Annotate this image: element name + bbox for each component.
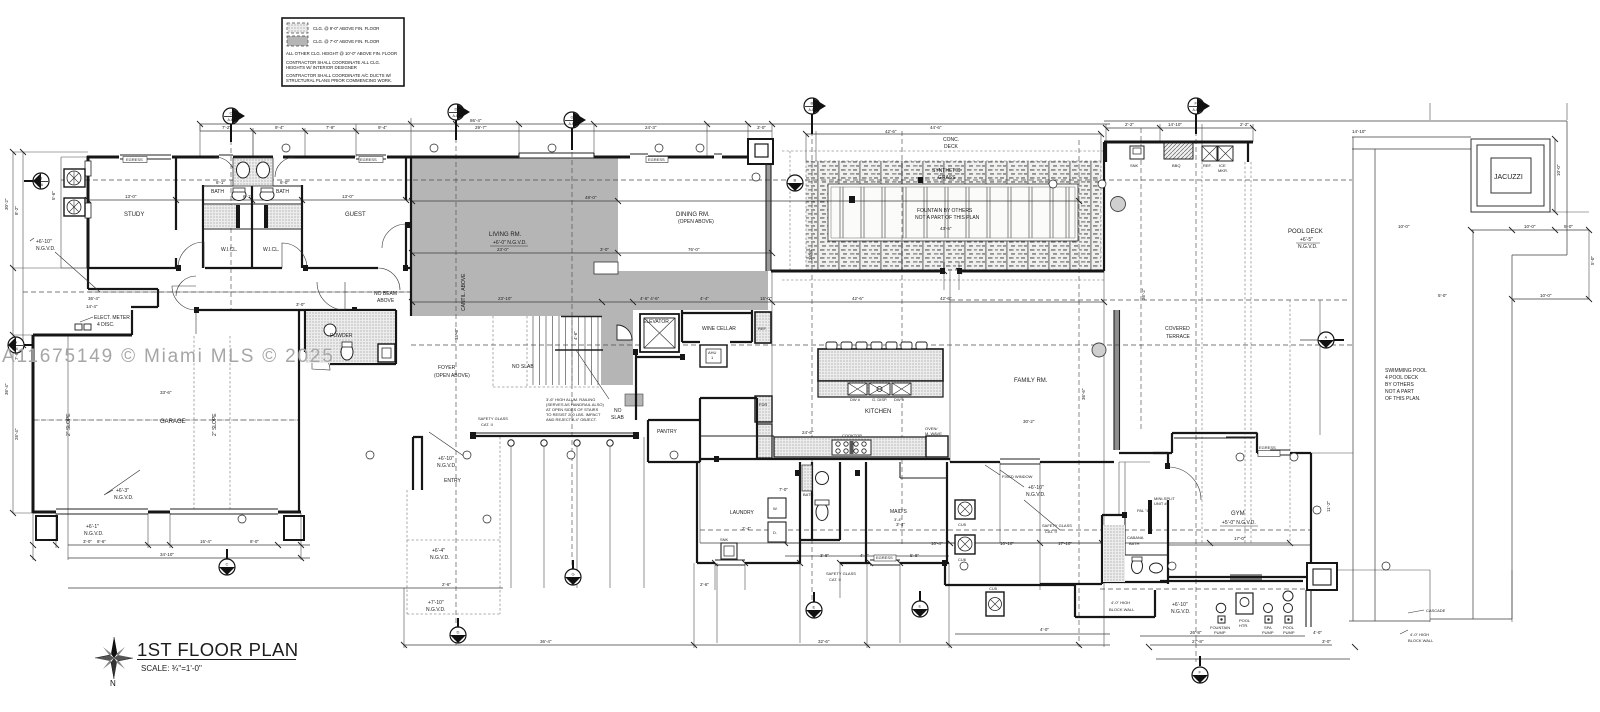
svg-text:HTR.: HTR. — [1239, 623, 1248, 628]
svg-text:+6'-4": +6'-4" — [432, 548, 445, 554]
svg-text:GUEST: GUEST — [345, 212, 366, 218]
svg-text:2'-6": 2'-6" — [442, 582, 451, 587]
laundry bath wall — [800, 462, 840, 563]
svg-text:SAFETY GLASS: SAFETY GLASS — [478, 416, 508, 421]
svg-text:2'-2": 2'-2" — [1240, 122, 1249, 127]
svg-text:BATH: BATH — [276, 189, 289, 195]
long vertical centerlines (dashed) — [231, 107, 1305, 662]
gym walls: north with raised section — [1119, 433, 1311, 453]
svg-text:BATH: BATH — [803, 492, 813, 497]
svg-text:36'-6": 36'-6" — [1081, 388, 1086, 400]
svg-text:29'-7": 29'-7" — [475, 125, 487, 130]
svg-text:9'-4": 9'-4" — [275, 125, 284, 130]
svg-text:36'-2": 36'-2" — [1141, 288, 1146, 300]
cabana bath hatch + fixtures — [1103, 525, 1125, 582]
svg-text:4'-0": 4'-0" — [1313, 630, 1322, 635]
stair landing rails — [555, 317, 603, 351]
CU5 condenser — [64, 169, 85, 187]
svg-text:MKR.: MKR. — [1218, 168, 1228, 173]
top dimension row 1 — [200, 123, 1110, 125]
svg-text:PUMP: PUMP — [1283, 630, 1295, 635]
svg-text:A-6: A-6 — [1323, 342, 1329, 346]
powder door arc — [312, 352, 330, 370]
svg-text:EGRESS: EGRESS — [126, 157, 143, 162]
svg-text:24'-6": 24'-6" — [802, 430, 814, 435]
svg-text:+6'-3": +6'-3" — [116, 488, 129, 494]
marker A left-bottom — [8, 337, 24, 353]
svg-text:D: D — [457, 630, 460, 635]
svg-text:5'-0": 5'-0" — [1590, 256, 1595, 265]
svg-text:W.I.CL.: W.I.CL. — [221, 247, 237, 253]
legend swatch 1: 9'-0 clg — [287, 23, 308, 33]
svg-text:27'-8": 27'-8" — [1192, 639, 1204, 644]
marker G top — [564, 112, 586, 128]
svg-text:AND REJECT A 4" OBJECT.: AND REJECT A 4" OBJECT. — [546, 417, 597, 422]
svg-text:CANTIL. ABOVE: CANTIL. ABOVE — [461, 273, 467, 311]
svg-text:EGRESS: EGRESS — [1259, 445, 1276, 450]
svg-text:NO SLAB: NO SLAB — [512, 364, 534, 370]
gray band under dining (cantilever above) — [618, 271, 768, 310]
svg-text:OF THIS PLAN.: OF THIS PLAN. — [1385, 396, 1420, 402]
svg-text:2" SLOPE: 2" SLOPE — [66, 413, 72, 436]
kitchen island hatched — [818, 349, 943, 381]
svg-text:G. DISP.: G. DISP. — [872, 397, 887, 402]
svg-text:2'-4": 2'-4" — [742, 526, 751, 531]
bath east wall — [301, 185, 303, 268]
svg-text:5'-0": 5'-0" — [1438, 293, 1447, 298]
svg-text:N.G.V.D.: N.G.V.D. — [426, 607, 446, 613]
powder sink — [324, 324, 336, 336]
gym interior north closet lines — [1174, 437, 1255, 439]
gym west wall — [1153, 453, 1168, 515]
bedroom wing: south wall of rooms — [87, 267, 411, 269]
powder room hatch — [306, 311, 395, 363]
REF box at wine cellar — [755, 312, 771, 343]
svg-text:15'-0": 15'-0" — [760, 296, 772, 301]
svg-text:JACUZZI: JACUZZI — [1494, 174, 1523, 181]
left upper small dim labels column x61 — [61, 157, 88, 268]
wine cellar walls — [682, 310, 752, 342]
jacuzzi — [1471, 139, 1550, 212]
cooktop — [832, 440, 871, 455]
svg-text:CAT. II: CAT. II — [1045, 529, 1057, 534]
svg-text:3'-0": 3'-0" — [1322, 639, 1331, 644]
svg-text:N.G.V.D.: N.G.V.D. — [437, 463, 457, 469]
mid-bottom dim row — [68, 543, 1290, 588]
svg-text:CLG. @ 9'-0" ABOVE FIN. FLOOR: CLG. @ 9'-0" ABOVE FIN. FLOOR — [313, 26, 379, 31]
svg-text:30'-2": 30'-2" — [4, 198, 9, 210]
living room gray slab (7'-0" clg) — [412, 158, 618, 316]
fountain inner rectangle — [828, 184, 1078, 241]
svg-text:D.: D. — [773, 530, 777, 535]
svg-text:A-6: A-6 — [792, 185, 798, 189]
dining north windows second line — [630, 153, 722, 155]
svg-text:7'-2": 7'-2" — [222, 125, 231, 130]
svg-text:STUDY: STUDY — [124, 212, 144, 218]
svg-text:WINE CELLAR: WINE CELLAR — [702, 326, 736, 332]
svg-text:N.G.V.D.: N.G.V.D. — [430, 555, 450, 561]
entry diagonal door — [429, 432, 468, 459]
column grid bubbles along top wall — [238, 144, 1390, 570]
svg-text:44'-6": 44'-6" — [930, 125, 942, 130]
stair treads — [533, 316, 598, 385]
svg-text:5'-6": 5'-6" — [51, 191, 56, 200]
legend swatch 2: 7'-0 clg — [287, 36, 308, 46]
bottom-left dims garage — [68, 545, 310, 558]
synthetic grass deck field — [806, 161, 1101, 271]
svg-text:NOT A PART: NOT A PART — [1385, 389, 1414, 395]
laundry sink — [721, 543, 737, 559]
EGRESS window boxes — [123, 157, 1280, 562]
pool heater — [1236, 593, 1253, 614]
svg-text:POOL DECK: POOL DECK — [1288, 229, 1323, 235]
outdoor kitchen: side walls — [1104, 142, 1248, 271]
svg-text:A-6: A-6 — [917, 611, 923, 615]
patio CU6 — [955, 535, 975, 554]
family rm dim verticals — [816, 131, 1104, 647]
garage east wall — [298, 310, 300, 513]
svg-text:N.G.V.D.: N.G.V.D. — [1026, 492, 1046, 498]
svg-text:4'-0": 4'-0" — [1040, 627, 1049, 632]
kitchen corridor dims — [700, 542, 949, 544]
svg-text:2" SLOPE: 2" SLOPE — [212, 413, 218, 436]
svg-text:7'-9": 7'-9" — [326, 125, 335, 130]
fountain jet columns (double thin lines) — [840, 187, 1069, 238]
bath toilets — [232, 190, 246, 201]
svg-text:CAT. II: CAT. II — [829, 577, 841, 582]
bedroom wing: north exterior wall — [87, 156, 411, 159]
top dimension row 2 — [200, 128, 1253, 131]
svg-text:4 POOL DECK: 4 POOL DECK — [1385, 375, 1419, 381]
svg-text:G: G — [571, 115, 574, 120]
svg-text:C: C — [226, 562, 229, 567]
svg-text:SNK: SNK — [1130, 163, 1139, 168]
right patio dims — [785, 543, 1104, 556]
svg-text:KITCHEN: KITCHEN — [865, 409, 891, 415]
svg-text:A-6: A-6 — [453, 114, 459, 118]
svg-text:15'-4": 15'-4" — [454, 328, 459, 340]
svg-text:30'-2": 30'-2" — [1023, 419, 1035, 424]
south laundry dim ticks — [715, 563, 900, 643]
svg-text:24'-3": 24'-3" — [645, 125, 657, 130]
svg-text:26'-8": 26'-8" — [1190, 630, 1202, 635]
grass deck top dim row — [806, 133, 1101, 135]
patio CU5 — [955, 500, 975, 519]
gym bottom dim — [1156, 545, 1350, 659]
living/dining north wall — [411, 156, 748, 159]
FDR closet hatched — [755, 396, 772, 422]
svg-text:A-6: A-6 — [38, 183, 44, 187]
svg-text:14'-10": 14'-10" — [1352, 129, 1366, 134]
svg-text:A-6: A-6 — [809, 108, 815, 112]
svg-text:EGRESS: EGRESS — [360, 157, 377, 162]
pump court east wall — [1306, 590, 1311, 627]
svg-text:PUMP: PUMP — [1262, 630, 1274, 635]
svg-text:N.G.V.D.: N.G.V.D. — [84, 531, 104, 537]
svg-text:CASCADE: CASCADE — [1426, 608, 1446, 613]
electric meter boxes — [75, 324, 82, 330]
svg-text:36'-4": 36'-4" — [540, 639, 552, 644]
svg-text:BLOCK WALL: BLOCK WALL — [1408, 638, 1434, 643]
island appliances DW / G.DISP / DW — [848, 383, 867, 395]
svg-text:CU5: CU5 — [958, 522, 967, 527]
garage north wall — [33, 334, 132, 337]
stairwell west dashed edge — [493, 316, 601, 387]
svg-text:N.G.V.D.: N.G.V.D. — [114, 495, 134, 501]
powder toilet — [341, 344, 353, 360]
svg-text:N.G.V.D.: N.G.V.D. — [1298, 244, 1318, 250]
svg-text:13'-0": 13'-0" — [125, 194, 137, 199]
svg-text:E: E — [919, 604, 922, 609]
svg-text:6'-0": 6'-0" — [280, 180, 289, 185]
marker B top-right — [804, 98, 826, 114]
svg-text:LIVING RM.: LIVING RM. — [489, 232, 522, 238]
conc deck dashed outline — [782, 151, 1104, 280]
svg-text:34'-10": 34'-10" — [160, 552, 174, 557]
hall step wall west — [88, 268, 158, 307]
svg-text:DW #: DW # — [850, 397, 861, 402]
pool deck outline top — [1352, 137, 1471, 149]
svg-text:15'-4": 15'-4" — [200, 539, 212, 544]
garage-side door arc — [195, 310, 197, 334]
marker D bottom — [450, 627, 466, 643]
interior long horizontal thin line at y292 (hall) — [88, 291, 411, 293]
marker stems — [24, 114, 1344, 666]
svg-text:76'-0": 76'-0" — [688, 247, 700, 252]
svg-text:BBQ: BBQ — [1172, 163, 1180, 168]
svg-text:3'-4": 3'-4" — [896, 522, 905, 527]
pool deck west line — [1353, 137, 1375, 621]
svg-text:8'-6": 8'-6" — [97, 539, 106, 544]
NE corner pillar box at dining — [748, 139, 773, 164]
svg-text:C: C — [230, 111, 233, 116]
svg-text:7'-0": 7'-0" — [779, 487, 788, 492]
svg-text:A: A — [1325, 335, 1328, 340]
svg-text:MAID'S: MAID'S — [890, 509, 907, 515]
svg-text:+6'-10": +6'-10" — [438, 456, 454, 462]
clerestory window north (recessed) — [519, 153, 594, 158]
svg-text:48'-0": 48'-0" — [585, 195, 597, 200]
svg-text:COOKTOP: COOKTOP — [842, 433, 862, 438]
bedroom door arcs — [178, 242, 307, 268]
svg-text:ABOVE: ABOVE — [377, 298, 395, 304]
patio CU5 lower — [986, 592, 1004, 616]
bottom long dim line — [404, 644, 1110, 646]
svg-text:CLG. @ 7'-0" ABOVE FIN. FLOOR: CLG. @ 7'-0" ABOVE FIN. FLOOR — [313, 39, 379, 44]
wing west wall window recesses — [85, 161, 91, 176]
svg-text:3'-0": 3'-0" — [296, 302, 305, 307]
foyer south windows at entry wall — [474, 432, 636, 434]
living rm west wall — [410, 157, 412, 316]
svg-text:33'-6": 33'-6" — [160, 390, 172, 395]
marker C bottom garage — [219, 559, 235, 575]
trees — [1111, 197, 1126, 212]
svg-text:+6'-10": +6'-10" — [1028, 485, 1044, 491]
svg-text:GRASS: GRASS — [938, 175, 956, 181]
svg-text:4'-4": 4'-4" — [700, 296, 709, 301]
guest east wall — [405, 157, 407, 268]
svg-text:TERRACE: TERRACE — [1166, 334, 1191, 340]
svg-text:8'-2": 8'-2" — [14, 206, 19, 215]
svg-text:2'-2": 2'-2" — [1125, 122, 1134, 127]
svg-text:POWDER: POWDER — [330, 333, 353, 339]
svg-text:(OPEN ABOVE): (OPEN ABOVE) — [678, 219, 714, 225]
svg-text:A-6: A-6 — [570, 579, 576, 583]
svg-text:42'-6": 42'-6" — [940, 296, 952, 301]
svg-text:REF.: REF. — [1203, 163, 1212, 168]
bar stools — [826, 342, 927, 349]
svg-text:11'-2": 11'-2" — [1326, 500, 1331, 512]
svg-text:3'-0": 3'-0" — [600, 247, 609, 252]
kitchen counter hatched — [774, 437, 927, 457]
marker E2 bottom — [912, 601, 928, 617]
garage pillar SW — [36, 516, 57, 540]
kitchen pnl label wall — [700, 424, 774, 436]
outdoor kitchen: bbq grill — [1164, 143, 1193, 159]
svg-text:HEIGHTS W/ INTERIOR DESIGNER: HEIGHTS W/ INTERIOR DESIGNER — [286, 65, 357, 70]
svg-text:B: B — [811, 101, 814, 106]
family rm east glass wall — [1114, 310, 1120, 450]
svg-text:DINING RM.: DINING RM. — [676, 212, 710, 218]
svg-text:SNK: SNK — [720, 537, 729, 542]
kitchen/laundry dividing wall — [700, 458, 950, 460]
svg-text:8'-0": 8'-0" — [250, 539, 259, 544]
svg-text:PAL "A": PAL "A" — [1137, 508, 1151, 513]
svg-text:+5'-0" N.G.V.D.: +5'-0" N.G.V.D. — [1222, 520, 1256, 526]
svg-text:E: E — [813, 605, 816, 610]
entry west post — [413, 437, 422, 490]
svg-text:SAFETY GLASS: SAFETY GLASS — [1042, 523, 1072, 528]
long horizontal centerlines (dashed) — [23, 180, 1353, 530]
pool deck bottom dims — [1430, 570, 1512, 622]
laundry room walls — [697, 462, 800, 563]
svg-text:B: B — [40, 176, 43, 181]
svg-text:A-6: A-6 — [224, 569, 230, 573]
svg-text:4 DISC.: 4 DISC. — [97, 322, 115, 328]
svg-text:LAUNDRY: LAUNDRY — [730, 510, 754, 516]
AHU closet — [700, 345, 727, 367]
placeholder groups — [412, 158, 1120, 450]
svg-text:14'-10": 14'-10" — [1168, 122, 1182, 127]
elevator shaft — [640, 314, 679, 352]
gray strip at stair lobby — [601, 310, 633, 385]
guest room door arc — [382, 224, 406, 248]
svg-text:10'-0": 10'-0" — [1398, 224, 1410, 229]
outdoor kitchen: north wall — [1104, 141, 1253, 144]
svg-text:10'-4": 10'-4" — [931, 541, 943, 546]
svg-text:A: A — [15, 340, 18, 345]
svg-text:23'-0": 23'-0" — [497, 247, 509, 252]
svg-text:ELEVATOR: ELEVATOR — [643, 319, 669, 325]
svg-text:+7'-10": +7'-10" — [428, 600, 444, 606]
gym door arc — [1168, 467, 1201, 500]
mini-split unit bar — [1148, 500, 1152, 534]
marker F bottom right — [1192, 667, 1208, 683]
svg-text:13'-0": 13'-0" — [342, 194, 354, 199]
oven/microwave tower — [926, 436, 948, 457]
entry walkway dashed outline — [407, 437, 500, 614]
marker F top far right — [1188, 98, 1210, 114]
svg-text:+6'-5": +6'-5" — [1300, 237, 1313, 243]
svg-text:D: D — [455, 107, 458, 112]
dining east wall (glass) — [766, 163, 771, 271]
small gray slab box left of pantry — [625, 394, 643, 406]
svg-text:ALL OTHER CLG. HEIGHT @ 10'-0": ALL OTHER CLG. HEIGHT @ 10'-0" ABOVE FIN… — [286, 51, 397, 56]
outdoor kitchen fixtures: sink — [1130, 146, 1144, 159]
kitchen west panel wall — [700, 398, 757, 458]
svg-text:32'-6": 32'-6" — [818, 639, 830, 644]
svg-text:N: N — [110, 679, 116, 688]
pool pump — [1283, 591, 1293, 601]
right side dims at jacuzzi — [1471, 139, 1589, 299]
marker B right of dining — [787, 175, 803, 191]
svg-text:N.G.V.D.: N.G.V.D. — [1171, 609, 1191, 615]
marker E bottom — [806, 602, 822, 618]
cabana toilet room divider — [1125, 515, 1168, 555]
svg-text:REF.: REF. — [758, 326, 767, 331]
entry porch columns — [508, 440, 514, 446]
bath west wall — [202, 185, 204, 268]
dining dim line — [412, 201, 1104, 302]
svg-text:A11675149 © Miami MLS © 2025: A11675149 © Miami MLS © 2025 — [2, 346, 335, 367]
svg-text:FOUNTAIN BY OTHERS: FOUNTAIN BY OTHERS — [917, 208, 973, 214]
svg-text:A-6: A-6 — [228, 118, 234, 122]
elevator lobby wall — [636, 352, 680, 420]
svg-text:36'-8": 36'-8" — [808, 248, 813, 260]
CU6 condenser — [64, 198, 85, 216]
w.i.c. shelf walls — [203, 186, 302, 229]
svg-text:10'-0": 10'-0" — [1524, 224, 1536, 229]
svg-text:42'-6": 42'-6" — [852, 296, 864, 301]
svg-text:PANTRY: PANTRY — [657, 429, 677, 435]
maid's bath fixtures — [816, 472, 829, 485]
svg-text:43'-6": 43'-6" — [940, 226, 952, 231]
svg-text:W.I.CL.: W.I.CL. — [263, 247, 279, 253]
vertical dim lines inside plan — [200, 124, 356, 157]
svg-text:SCALE: ¾"=1'-0": SCALE: ¾"=1'-0" — [141, 664, 202, 673]
garage west wall — [32, 335, 35, 513]
svg-text:+6'-1": +6'-1" — [86, 524, 99, 530]
svg-text:6'-1": 6'-1" — [216, 180, 225, 185]
svg-text:26'-4": 26'-4" — [14, 428, 19, 440]
svg-text:5'-8": 5'-8" — [910, 553, 919, 558]
marker A right (terrace) — [1318, 332, 1334, 348]
cabana bath walls — [1040, 515, 1168, 584]
svg-text:3'-0": 3'-0" — [757, 125, 766, 130]
svg-text:86'-4": 86'-4" — [470, 118, 482, 123]
svg-text:BATH: BATH — [211, 189, 224, 195]
svg-text:A-6: A-6 — [569, 122, 575, 126]
svg-text:ENTRY: ENTRY — [444, 478, 462, 484]
svg-text:G: G — [572, 572, 575, 577]
svg-text:(OPEN ABOVE): (OPEN ABOVE) — [434, 373, 470, 379]
window sills north wall — [120, 155, 386, 159]
top dimension extension ticks — [200, 118, 1253, 163]
svg-text:10'-10": 10'-10" — [1000, 541, 1014, 546]
svg-text:W.: W. — [773, 506, 778, 511]
marker G bottom entry — [565, 569, 581, 585]
right bottom dim lines — [955, 634, 1332, 645]
svg-text:EGRESS: EGRESS — [876, 555, 893, 560]
svg-text:UNIT #3: UNIT #3 — [1154, 501, 1170, 506]
bottom extension verticals — [511, 437, 644, 588]
door jamb blocks — [176, 177, 1170, 566]
maid's room walls — [840, 462, 949, 563]
maid's south window sills — [715, 560, 900, 565]
svg-text:23'-10": 23'-10" — [498, 296, 512, 301]
svg-text:DECK: DECK — [944, 144, 959, 150]
svg-text:4'-0" HIGH: 4'-0" HIGH — [1111, 600, 1130, 605]
